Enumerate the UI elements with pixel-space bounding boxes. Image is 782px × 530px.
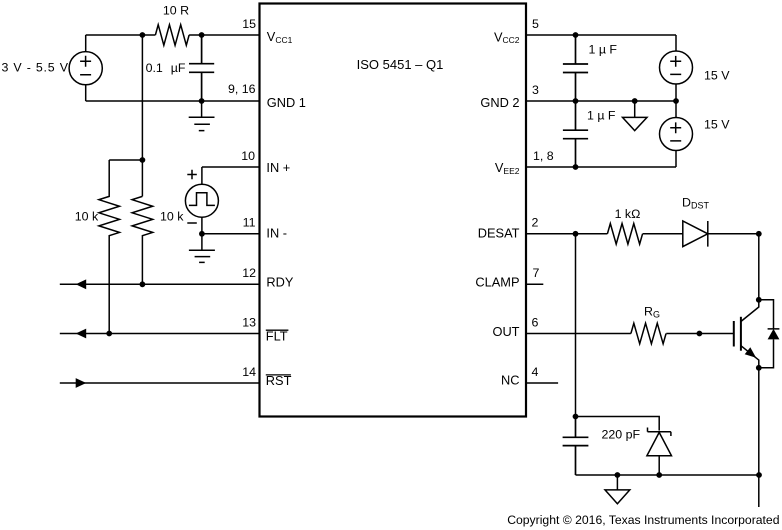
pin label DESAT bbox=[478, 226, 520, 241]
wire VCC1 top rail bbox=[86, 34, 260, 36]
pin label VCC2 bbox=[494, 29, 520, 45]
svg-text:1, 8: 1, 8 bbox=[533, 149, 554, 163]
wire VCC2 rail pin 5 bbox=[526, 17, 676, 35]
svg-text:1 kΩ: 1 kΩ bbox=[615, 207, 641, 221]
node junction dot GND2 / sources bbox=[673, 98, 679, 104]
svg-text:3: 3 bbox=[532, 83, 539, 97]
wire pin 2 DESAT bbox=[526, 216, 683, 234]
svg-text:15 V: 15 V bbox=[704, 118, 730, 132]
wire emitter down to rail bbox=[758, 368, 760, 507]
capacitor C1 0.1uF bbox=[146, 35, 215, 101]
svg-text:13: 13 bbox=[242, 316, 256, 330]
wire pullup tee connector bbox=[109, 159, 142, 161]
svg-text:14: 14 bbox=[242, 365, 256, 379]
svg-text:10 k: 10 k bbox=[160, 209, 184, 223]
svg-text:RG: RG bbox=[644, 305, 660, 320]
pin label RST (overline) bbox=[266, 373, 292, 388]
svg-text:DESAT: DESAT bbox=[478, 226, 520, 241]
pin number 15 bbox=[242, 17, 256, 31]
diode D_DST bbox=[682, 195, 759, 246]
svg-text:ISO 5451 – Q1: ISO 5451 – Q1 bbox=[357, 57, 444, 72]
wire VEE2 rail pins 1,8 bbox=[526, 149, 676, 167]
svg-text:11: 11 bbox=[243, 216, 256, 230]
node junction dot OUT / gate bbox=[697, 331, 703, 337]
pin label IN - bbox=[266, 225, 287, 240]
node junction dot rail / emitter bbox=[756, 472, 762, 478]
pin label CLAMP bbox=[475, 274, 519, 289]
capacitor C5 220pF bbox=[563, 417, 641, 476]
pin label IN + bbox=[266, 160, 290, 175]
node junction dot FLT / R2 bbox=[106, 331, 112, 337]
wire pin 12 RDY bbox=[60, 266, 260, 284]
wire DESAT vertical branch to blanking network bbox=[575, 234, 577, 417]
wire VEE2 bottom rail bbox=[576, 474, 760, 476]
svg-text:FLT: FLT bbox=[266, 329, 288, 344]
node junction dot collector / diode bbox=[756, 297, 762, 303]
svg-text:2: 2 bbox=[532, 216, 539, 230]
resistor R2 10k (FLT pull-up) bbox=[75, 160, 120, 334]
node junction dot top rail / C1 bbox=[199, 32, 205, 38]
transistor Q1 IGBT bbox=[734, 234, 759, 368]
node junction dot emitter / diode bbox=[756, 365, 762, 371]
pin label GND 1 bbox=[267, 95, 306, 110]
node junction dot VEE2 / C4 bbox=[573, 164, 579, 170]
voltage source V3 15V (lower) bbox=[660, 101, 731, 167]
capacitor C3 1uF bbox=[563, 35, 618, 101]
node junction dot rail / zener bbox=[656, 472, 662, 478]
svg-text:NC: NC bbox=[501, 373, 519, 388]
diode D2 anti-parallel bbox=[759, 300, 780, 368]
node junction dot IN- / pulse source bbox=[199, 231, 205, 237]
wire pin 13 FLT bbox=[60, 316, 260, 334]
wire pullup column from VCC1 rail bbox=[141, 35, 143, 196]
wire pin 11 IN- bbox=[202, 216, 260, 234]
node junction dot blanking tee bbox=[573, 414, 579, 420]
svg-text:10 k: 10 k bbox=[75, 209, 99, 223]
wire GND2 rail pin 3 bbox=[526, 83, 676, 101]
wire GND1 bottom rail bbox=[86, 100, 260, 102]
pin number 9,16 bbox=[228, 82, 256, 96]
ground symbol G1 bbox=[189, 101, 215, 131]
svg-text:RDY: RDY bbox=[266, 274, 293, 289]
pin label FLT (overline) bbox=[266, 329, 289, 344]
svg-text:7: 7 bbox=[533, 266, 540, 280]
wire blanking tee to zener bbox=[576, 417, 660, 431]
resistor R4 1k bbox=[607, 207, 642, 244]
node junction dot rail / ground bbox=[615, 472, 621, 478]
svg-text:10: 10 bbox=[241, 149, 255, 163]
node junction dot GND2 / C3 bbox=[573, 98, 579, 104]
ground symbol G2 bbox=[189, 250, 215, 262]
pin label RDY bbox=[266, 274, 293, 289]
copyright note bbox=[507, 513, 779, 527]
svg-text:9, 16: 9, 16 bbox=[228, 82, 256, 96]
node junction dot RDY / R3 bbox=[140, 281, 146, 287]
ground symbol GT1 (triangle) bbox=[623, 101, 648, 131]
svg-text:10 R: 10 R bbox=[163, 4, 189, 18]
svg-text:IN -: IN - bbox=[266, 225, 287, 240]
svg-text:DDST: DDST bbox=[682, 195, 709, 210]
svg-text:0.1: 0.1 bbox=[146, 61, 163, 75]
svg-text:4: 4 bbox=[532, 365, 539, 379]
zener diode Z1 bbox=[647, 428, 672, 476]
resistor R3 10k (RDY pull-up) bbox=[132, 196, 184, 284]
pin label GND 2 bbox=[480, 95, 519, 110]
capacitor C4 1uF bbox=[563, 101, 616, 167]
pin label OUT bbox=[492, 324, 519, 339]
wire pin 7 CLAMP stub bbox=[526, 266, 543, 284]
pin label NC bbox=[501, 373, 519, 388]
svg-text:GND 2: GND 2 bbox=[480, 95, 519, 110]
node junction dot DESAT / collector bbox=[756, 231, 762, 237]
node junction dot GND rail / C1 bbox=[199, 98, 205, 104]
svg-text:GND 1: GND 1 bbox=[267, 95, 306, 110]
node junction dot VCC2 / C3 bbox=[573, 32, 579, 38]
arrow RDY output (left) bbox=[76, 279, 87, 289]
svg-text:µF: µF bbox=[171, 61, 186, 75]
svg-text:CLAMP: CLAMP bbox=[475, 274, 519, 289]
svg-text:IN +: IN + bbox=[266, 160, 290, 175]
svg-text:15: 15 bbox=[242, 17, 256, 31]
svg-text:6: 6 bbox=[532, 316, 539, 330]
voltage source V1 3V-5.5V bbox=[1, 35, 102, 101]
op-amp U1 ISO 5451 - Q1 IC body bbox=[260, 4, 527, 417]
node junction dot top rail / pullup column bbox=[140, 32, 146, 38]
arrow FLT output (left) bbox=[76, 329, 87, 339]
pin label VEE2 bbox=[495, 160, 520, 176]
svg-text:Copyright © 2016, Texas Instru: Copyright © 2016, Texas Instruments Inco… bbox=[507, 513, 779, 527]
svg-text:1 µ F: 1 µ F bbox=[589, 43, 618, 57]
svg-text:1 µ F: 1 µ F bbox=[587, 109, 616, 123]
resistor R5 RG bbox=[631, 305, 666, 344]
node junction dot GND2 / ground bbox=[632, 98, 638, 104]
svg-text:5: 5 bbox=[532, 17, 539, 31]
wire pin 14 RST bbox=[60, 365, 260, 383]
svg-text:12: 12 bbox=[242, 266, 256, 280]
wire pin 4 NC stub bbox=[526, 365, 558, 383]
resistor 10R bbox=[155, 4, 189, 46]
voltage source V2 15V (upper) bbox=[660, 35, 731, 101]
svg-text:15 V: 15 V bbox=[704, 69, 730, 83]
node junction dot pullup tee bbox=[140, 157, 146, 163]
ground symbol GT2 (triangle) bbox=[605, 475, 630, 504]
wire pin 10 IN+ bbox=[202, 149, 260, 167]
svg-text:OUT: OUT bbox=[492, 324, 519, 339]
pin label VCC1 bbox=[267, 29, 293, 45]
pulse source VP bbox=[185, 167, 218, 250]
svg-text:3 V - 5.5 V: 3 V - 5.5 V bbox=[1, 61, 68, 75]
node junction dot DESAT / blanking cap branch bbox=[573, 231, 579, 237]
wire pin 6 OUT bbox=[526, 316, 734, 334]
svg-text:220 pF: 220 pF bbox=[602, 427, 641, 441]
arrow RST input (right-pointing) bbox=[76, 378, 87, 388]
